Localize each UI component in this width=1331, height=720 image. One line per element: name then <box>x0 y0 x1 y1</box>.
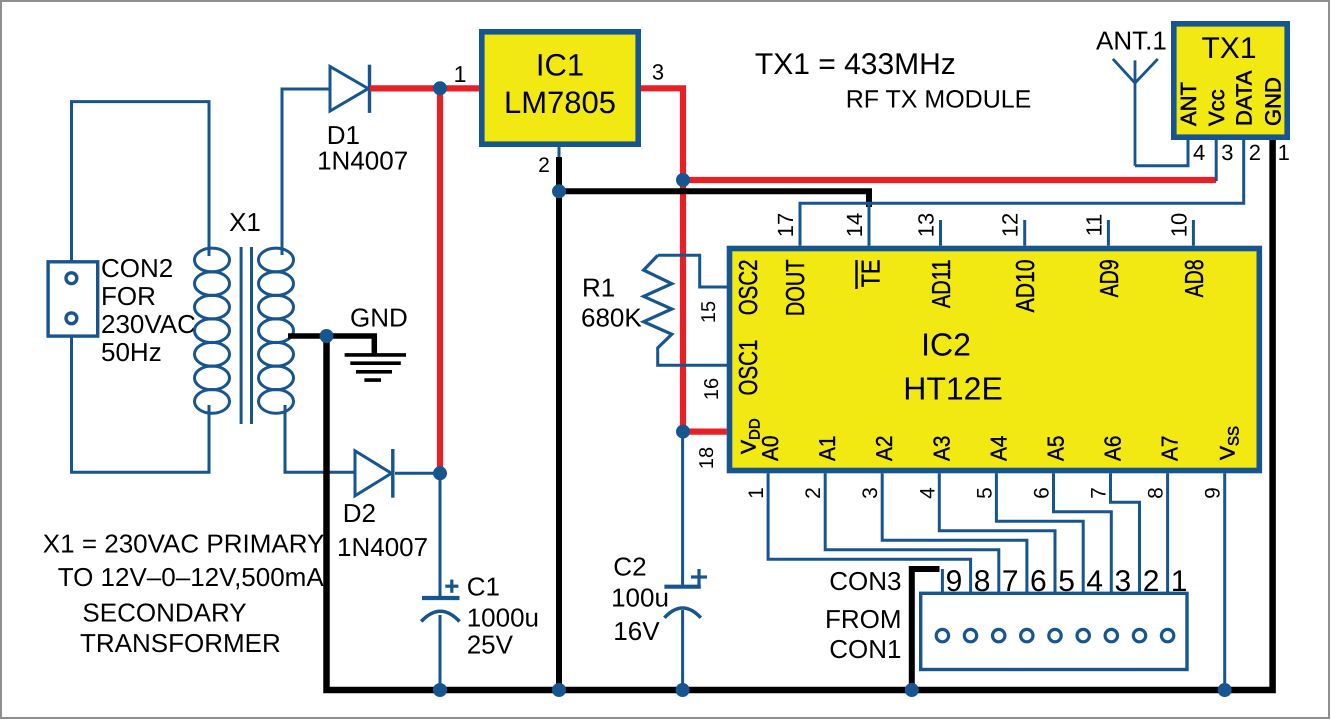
svg-text:LM7805: LM7805 <box>504 85 616 120</box>
svg-text:OSC2: OSC2 <box>733 259 763 315</box>
svg-text:12: 12 <box>998 213 1023 237</box>
svg-text:1: 1 <box>1278 140 1290 165</box>
svg-text:1: 1 <box>1171 565 1188 598</box>
wire IC1 pin2 stub <box>558 146 561 160</box>
wire center tap (black) <box>288 336 374 354</box>
svg-text:2: 2 <box>1249 140 1261 165</box>
node junction at 440,690 <box>433 683 447 697</box>
resistor R1 680K <box>644 255 672 348</box>
svg-text:6: 6 <box>1030 565 1047 598</box>
svg-text:2: 2 <box>802 487 825 499</box>
svg-text:ANT: ANT <box>1176 82 1201 126</box>
svg-text:A7: A7 <box>1157 436 1183 462</box>
wire secondary top to D1 anode <box>282 89 331 255</box>
svg-text:TRANSFORMER: TRANSFORMER <box>80 628 281 658</box>
wire red down from D1 junction to D2 junction <box>437 88 443 473</box>
svg-text:1: 1 <box>745 487 768 499</box>
svg-text:DOUT: DOUT <box>780 259 810 316</box>
svg-text:AD9: AD9 <box>1094 259 1124 297</box>
wire IC1 pin2 ground (black) <box>556 157 562 690</box>
svg-text:4: 4 <box>916 487 939 499</box>
node junction at 440,88.3 <box>433 81 447 95</box>
svg-text:X1 = 230VAC PRIMARY: X1 = 230VAC PRIMARY <box>43 528 325 558</box>
svg-text:1N4007: 1N4007 <box>317 146 408 176</box>
node junction at 1224.7,690 <box>1218 683 1232 697</box>
svg-text:8: 8 <box>1145 487 1168 499</box>
IC IC2 HT12E box <box>730 249 1260 471</box>
svg-text:D2: D2 <box>343 498 376 528</box>
transformer X1 core <box>240 247 243 424</box>
svg-text:C1: C1 <box>467 572 500 602</box>
CON3 hole 4 <box>1077 629 1089 641</box>
svg-text:IC1: IC1 <box>536 48 584 83</box>
svg-text:9: 9 <box>1202 487 1225 499</box>
diode D2 <box>355 451 392 496</box>
node junction at 683,431.6 <box>676 425 690 439</box>
diode D1 <box>330 67 368 112</box>
svg-text:GND: GND <box>350 303 408 333</box>
wire VDD junction down to C2 <box>681 432 684 586</box>
svg-text:GND: GND <box>1261 77 1286 126</box>
svg-text:3: 3 <box>1115 565 1132 598</box>
svg-text:X1: X1 <box>229 207 261 237</box>
TE overline <box>855 260 857 289</box>
antenna ANT.1 <box>1113 59 1158 166</box>
svg-text:7: 7 <box>1088 487 1111 499</box>
module TX1 box <box>1174 24 1287 137</box>
svg-text:A5: A5 <box>1043 436 1069 462</box>
svg-text:3: 3 <box>652 60 664 85</box>
svg-text:5: 5 <box>1058 565 1075 598</box>
svg-text:2: 2 <box>1143 565 1160 598</box>
transformer X1 primary winding <box>195 248 230 413</box>
node junction at 440,473.3 <box>433 466 447 480</box>
svg-text:R1: R1 <box>582 273 615 303</box>
svg-text:50Hz: 50Hz <box>101 337 162 367</box>
wire A5 to CON3 <box>1054 473 1112 593</box>
svg-text:AD8: AD8 <box>1179 259 1209 297</box>
wire D2 cathode to junction <box>395 472 440 475</box>
CON3 hole 1 <box>1161 629 1173 641</box>
svg-text:FROM: FROM <box>825 604 902 634</box>
wire junction down to C1 <box>439 473 442 599</box>
svg-text:TX1 = 433MHz: TX1 = 433MHz <box>755 48 956 81</box>
wire A4 to CON3 <box>996 473 1083 593</box>
svg-text:18: 18 <box>696 447 718 469</box>
svg-text:8: 8 <box>974 565 991 598</box>
node junction at 683,180 <box>676 173 690 187</box>
wire A1 to CON3 <box>825 473 999 593</box>
wire DOUT pin17 to TX1 DATA pin2 <box>800 140 1244 246</box>
svg-text:1N4007: 1N4007 <box>337 532 428 562</box>
node junction at 326.5,336 <box>320 329 334 343</box>
svg-text:1000u: 1000u <box>467 603 539 633</box>
svg-text:25V: 25V <box>467 629 514 659</box>
transformer X1 secondary winding <box>259 248 294 413</box>
svg-text:A3: A3 <box>928 436 954 462</box>
ground <box>345 353 406 357</box>
CON3 hole 8 <box>964 629 976 641</box>
svg-text:A0: A0 <box>757 436 783 462</box>
wire TX1 pin4 stub <box>1135 140 1188 166</box>
svg-text:3: 3 <box>1221 140 1233 165</box>
CON3 hole 3 <box>1105 629 1117 641</box>
wire C1 to bottom rail <box>439 615 442 690</box>
svg-text:IC2: IC2 <box>921 326 971 362</box>
svg-text:A4: A4 <box>985 435 1011 461</box>
svg-text:SECONDARY: SECONDARY <box>82 598 246 628</box>
CON3 hole 2 <box>1133 629 1145 641</box>
svg-text:A2: A2 <box>871 436 897 462</box>
wire A7 to CON3 <box>1166 473 1169 593</box>
svg-text:ANT.1: ANT.1 <box>1096 26 1167 56</box>
pin 11 stub <box>1107 220 1110 246</box>
svg-text:230VAC: 230VAC <box>101 309 196 339</box>
wire GND rail down + bottom rail + up to TX1 GND (black bus) <box>327 140 1273 690</box>
node junction at 682.6,690 <box>676 683 690 697</box>
wire R1 top to OSC2 pin15 <box>658 255 729 287</box>
wire A3 to CON3 <box>939 473 1055 593</box>
wire A6 to CON3 <box>1111 473 1140 593</box>
CON3 hole 7 <box>993 629 1005 641</box>
wire VSS to ground rail <box>1223 473 1226 690</box>
node junction at 559,690 <box>552 683 566 697</box>
node junction at 559,191.3 <box>552 184 566 198</box>
svg-text:AD10: AD10 <box>1010 259 1040 312</box>
wire A0 to CON3 <box>768 473 971 593</box>
svg-text:A6: A6 <box>1100 436 1126 462</box>
pin 10 stub <box>1192 220 1195 246</box>
wire CON2 bottom to transformer primary bottom <box>72 336 210 472</box>
svg-text:17: 17 <box>773 213 798 237</box>
svg-text:11: 11 <box>1081 214 1106 237</box>
svg-text:TO 12V–0–12V,500mA: TO 12V–0–12V,500mA <box>58 562 325 592</box>
svg-text:7: 7 <box>1002 565 1019 598</box>
capacitor C1 <box>422 596 460 600</box>
CON3 hole 6 <box>1021 629 1033 641</box>
connector CON2 <box>48 262 98 336</box>
svg-text:HT12E: HT12E <box>903 371 1003 407</box>
connector CON3 box <box>921 593 1187 669</box>
svg-text:RF TX MODULE: RF TX MODULE <box>846 86 1032 114</box>
svg-text:TX1: TX1 <box>1201 32 1256 65</box>
svg-text:4: 4 <box>1086 565 1103 598</box>
wire secondary bottom to D2 anode <box>285 405 356 472</box>
svg-text:6: 6 <box>1031 487 1054 499</box>
wire CON2 top to transformer primary top <box>72 102 210 262</box>
CON3 hole 5 <box>1049 629 1061 641</box>
wire A2 to CON3 <box>882 473 1027 593</box>
pin 13 stub <box>939 220 942 246</box>
svg-text:16: 16 <box>701 378 723 400</box>
svg-text:5: 5 <box>973 487 996 499</box>
svg-text:C2: C2 <box>613 552 646 582</box>
op IC1 LM7805 box <box>482 32 638 144</box>
svg-text:A1: A1 <box>814 436 840 462</box>
pin 12 stub <box>1023 220 1026 246</box>
svg-text:10: 10 <box>1166 213 1191 237</box>
capacitor C2 <box>664 585 700 589</box>
node junction at 911.8,690 <box>905 683 919 697</box>
wire IC1 pin3 out (red) to TX1 Vcc <box>641 88 1216 180</box>
wire red down to VDD junction <box>683 180 727 432</box>
svg-text:680K: 680K <box>581 303 642 333</box>
wire C2 to bottom rail <box>681 610 684 690</box>
wire R1 bottom to OSC1 pin16 <box>658 347 729 365</box>
svg-text:13: 13 <box>914 213 939 237</box>
svg-text:15: 15 <box>698 301 720 323</box>
wire ground to CON3 pos9 (black) <box>912 569 940 690</box>
svg-text:DATA: DATA <box>1232 70 1257 126</box>
svg-text:16V: 16V <box>613 616 660 646</box>
wire D1 cathode to IC1 pin1 (red) <box>370 85 479 91</box>
svg-text:CON1: CON1 <box>829 634 901 664</box>
svg-text:AD11: AD11 <box>926 259 956 308</box>
wire black to IC2 TE pin14 <box>559 191 869 207</box>
svg-text:1: 1 <box>454 61 467 87</box>
CON3 hole 9 <box>936 629 948 641</box>
svg-text:3: 3 <box>859 487 882 499</box>
svg-text:CON3: CON3 <box>829 566 901 596</box>
svg-text:FOR: FOR <box>101 281 156 311</box>
svg-text:TE: TE <box>855 259 885 287</box>
svg-text:9: 9 <box>946 565 963 598</box>
svg-text:2: 2 <box>538 154 550 177</box>
svg-text:CON2: CON2 <box>101 253 173 283</box>
wire TX1 Vcc stub <box>1215 140 1218 181</box>
svg-text:OSC1: OSC1 <box>733 340 763 396</box>
svg-text:14: 14 <box>842 213 867 237</box>
svg-text:Vcc: Vcc <box>1204 89 1229 126</box>
svg-text:100u: 100u <box>611 583 669 613</box>
svg-text:4: 4 <box>1193 140 1205 165</box>
